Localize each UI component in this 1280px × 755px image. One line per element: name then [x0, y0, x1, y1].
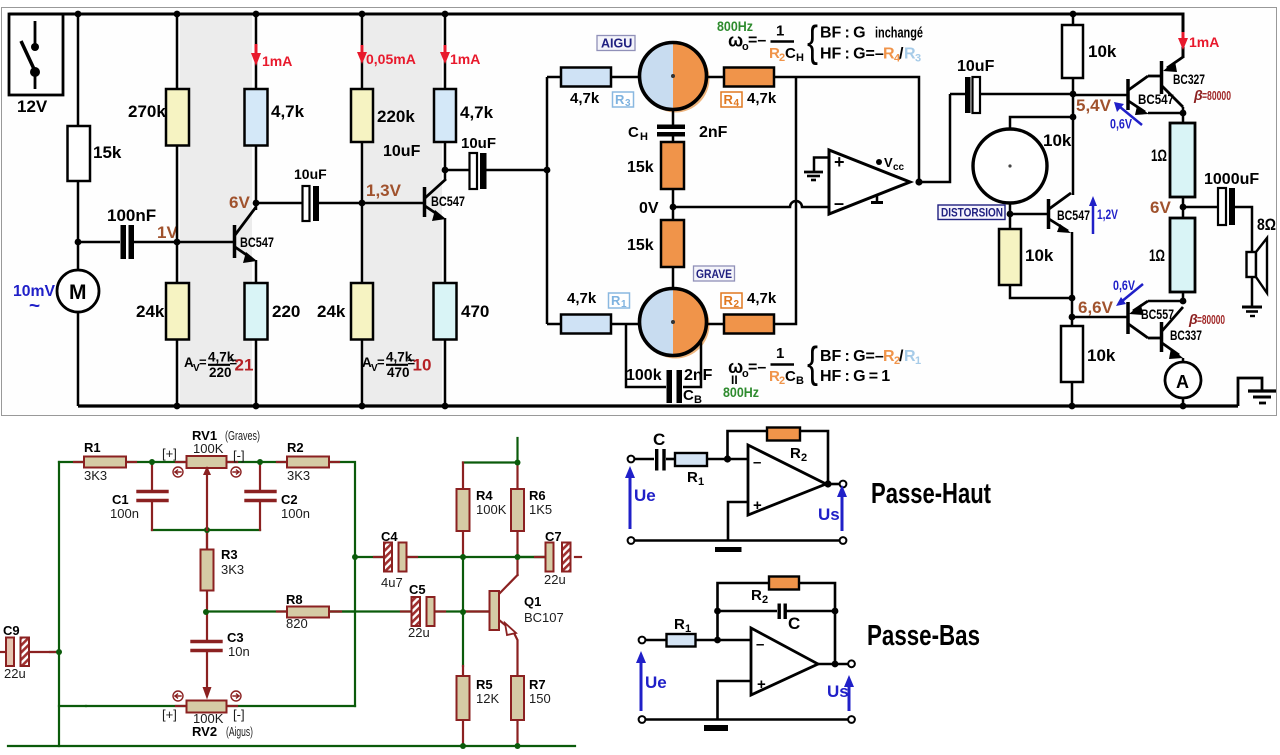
svg-text:R3: R3: [221, 547, 238, 562]
svg-text:BF : G=–: BF : G=–: [820, 348, 884, 365]
svg-text:21: 21: [235, 356, 254, 375]
svg-text:BC327: BC327: [1173, 72, 1205, 87]
svg-text:BC547: BC547: [240, 235, 274, 250]
svg-text:10uF: 10uF: [461, 135, 496, 152]
svg-text:100n: 100n: [110, 506, 139, 521]
svg-text:R: R: [615, 92, 625, 107]
svg-text:6,6V: 6,6V: [1078, 298, 1114, 317]
svg-text:270k: 270k: [128, 102, 166, 121]
svg-text:=: =: [377, 355, 385, 370]
svg-text:1: 1: [685, 623, 691, 635]
svg-text:=: =: [199, 355, 207, 370]
svg-text:150: 150: [529, 691, 551, 706]
svg-text:3K3: 3K3: [287, 468, 310, 483]
svg-text:1mA: 1mA: [1189, 34, 1219, 50]
svg-text:+: +: [757, 676, 766, 693]
svg-text:100nF: 100nF: [107, 206, 156, 225]
svg-text:C2: C2: [281, 492, 298, 507]
svg-text:3K3: 3K3: [221, 562, 244, 577]
svg-text:R2: R2: [287, 440, 304, 455]
svg-text:C5: C5: [409, 582, 426, 597]
svg-text:RV2: RV2: [192, 724, 217, 739]
svg-text:5,4V: 5,4V: [1076, 96, 1112, 115]
svg-text:4u7: 4u7: [381, 575, 403, 590]
svg-text:+: +: [753, 497, 762, 514]
svg-text:cc: cc: [893, 162, 905, 173]
svg-text:{: {: [807, 18, 818, 67]
svg-text:1,2V: 1,2V: [1097, 207, 1118, 222]
svg-text:B: B: [796, 375, 804, 387]
svg-text:10n: 10n: [228, 644, 250, 659]
svg-text:12V: 12V: [17, 97, 48, 116]
svg-text:10k: 10k: [1043, 131, 1072, 150]
svg-text:3: 3: [915, 53, 921, 65]
svg-text:–: –: [753, 454, 761, 471]
svg-text:ω: ω: [728, 31, 743, 51]
svg-text:Q1: Q1: [524, 594, 541, 609]
svg-text:~: ~: [29, 296, 40, 317]
svg-text:470: 470: [461, 302, 489, 321]
svg-text:1mA: 1mA: [262, 53, 292, 69]
svg-text:100K: 100K: [193, 711, 224, 726]
svg-text:8Ω: 8Ω: [1257, 215, 1276, 234]
svg-text:C9: C9: [3, 623, 20, 638]
svg-text:A: A: [1176, 372, 1189, 392]
svg-text:1mA: 1mA: [450, 51, 480, 67]
svg-text:15k: 15k: [627, 159, 654, 176]
svg-text:–: –: [756, 636, 764, 653]
svg-text:2nF: 2nF: [684, 367, 713, 384]
svg-text:C: C: [785, 45, 796, 62]
svg-text:10k: 10k: [1087, 346, 1116, 365]
svg-text:4: 4: [734, 98, 740, 109]
svg-text:22u: 22u: [4, 666, 26, 681]
svg-text:C4: C4: [381, 529, 398, 544]
svg-text:220k: 220k: [377, 107, 415, 126]
svg-text:DISTORSION: DISTORSION: [941, 208, 1003, 220]
svg-text:2: 2: [801, 452, 807, 464]
svg-text:R7: R7: [529, 677, 546, 692]
svg-text:100k: 100k: [626, 367, 662, 384]
svg-text:0,6V: 0,6V: [1110, 117, 1132, 132]
svg-text:[-]: [-]: [233, 707, 245, 722]
svg-text:100K: 100K: [476, 502, 507, 517]
svg-text:(Graves): (Graves): [225, 428, 260, 443]
svg-text:470: 470: [387, 365, 410, 380]
svg-text:[+]: [+]: [162, 707, 177, 722]
svg-text:1Ω: 1Ω: [1149, 246, 1165, 265]
svg-text:220: 220: [272, 302, 300, 321]
svg-text:1,3V: 1,3V: [366, 181, 402, 200]
svg-text:BC557: BC557: [1141, 307, 1174, 322]
svg-text:4,7k: 4,7k: [567, 290, 597, 307]
svg-text:4,7k: 4,7k: [460, 103, 494, 122]
svg-text:=–: =–: [748, 359, 766, 376]
svg-text:1: 1: [776, 23, 784, 40]
svg-text:0,6V: 0,6V: [1113, 278, 1135, 293]
svg-text:1: 1: [698, 476, 704, 488]
svg-text:10uF: 10uF: [957, 58, 995, 75]
svg-text:BF : G: BF : G: [820, 25, 866, 42]
svg-text:1: 1: [776, 345, 784, 362]
svg-text:10uF: 10uF: [294, 166, 327, 182]
svg-text:+: +: [834, 152, 845, 172]
svg-text:1000uF: 1000uF: [1204, 171, 1259, 188]
svg-text:R: R: [790, 445, 801, 462]
svg-text:=80000: =80000: [1197, 313, 1225, 327]
svg-text:B: B: [694, 394, 702, 406]
svg-text:1: 1: [915, 355, 921, 367]
svg-text:220: 220: [209, 365, 232, 380]
svg-text:Us: Us: [827, 682, 849, 701]
svg-text:{: {: [807, 339, 818, 388]
svg-text:R: R: [674, 616, 685, 633]
svg-text:inchangé: inchangé: [875, 26, 923, 42]
svg-text:M: M: [69, 281, 87, 304]
svg-text:4,7k: 4,7k: [747, 90, 777, 107]
svg-text:=80000: =80000: [1202, 89, 1231, 103]
svg-text:800Hz: 800Hz: [723, 385, 759, 400]
svg-text:R5: R5: [476, 677, 493, 692]
svg-text:1K5: 1K5: [529, 502, 552, 517]
svg-text:BC107: BC107: [524, 610, 564, 625]
svg-text:C: C: [653, 430, 665, 449]
svg-text:=–: =–: [748, 32, 766, 49]
svg-text:10uF: 10uF: [383, 143, 421, 160]
svg-text:100n: 100n: [281, 506, 310, 521]
svg-text:Us: Us: [818, 505, 840, 524]
svg-text:C: C: [683, 387, 694, 404]
svg-text:R8: R8: [286, 592, 303, 607]
svg-text:C1: C1: [112, 492, 129, 507]
svg-text:22u: 22u: [408, 625, 430, 640]
svg-text:2nF: 2nF: [699, 124, 728, 141]
svg-text:4,7k: 4,7k: [747, 290, 777, 307]
svg-text:0,05mA: 0,05mA: [366, 51, 416, 67]
svg-text:GRAVE: GRAVE: [696, 267, 732, 281]
svg-text:V: V: [884, 155, 893, 170]
svg-text:6V: 6V: [229, 193, 250, 212]
svg-text:BC547: BC547: [1057, 208, 1090, 223]
svg-text:R6: R6: [529, 488, 546, 503]
svg-text:–: –: [834, 193, 844, 213]
svg-text:AIGU: AIGU: [601, 37, 632, 51]
svg-text:(Aigus): (Aigus): [226, 724, 253, 739]
svg-text:C: C: [788, 614, 800, 633]
svg-text:0V: 0V: [639, 200, 659, 217]
svg-text:H: H: [796, 52, 804, 64]
svg-text:10: 10: [413, 356, 432, 375]
svg-text:15k: 15k: [627, 237, 654, 254]
svg-text:C3: C3: [227, 630, 244, 645]
svg-text:R: R: [724, 293, 734, 308]
svg-text:2: 2: [762, 594, 768, 606]
svg-text:100K: 100K: [193, 441, 224, 456]
svg-text:10k: 10k: [1025, 246, 1054, 265]
svg-text:Ue: Ue: [634, 486, 656, 505]
svg-text:R: R: [751, 587, 762, 604]
svg-text:24k: 24k: [136, 302, 165, 321]
svg-text:BC547: BC547: [431, 194, 465, 209]
svg-text:C7: C7: [545, 529, 562, 544]
svg-text:C: C: [628, 124, 639, 141]
svg-text:22u: 22u: [544, 572, 566, 587]
svg-text:4,7k: 4,7k: [271, 102, 305, 121]
svg-text:HF : G = 1: HF : G = 1: [820, 368, 890, 385]
svg-text:3: 3: [625, 98, 631, 109]
svg-text:R: R: [687, 469, 698, 486]
svg-text:R4: R4: [476, 488, 493, 503]
svg-text:Passe-Haut: Passe-Haut: [871, 478, 991, 510]
svg-text:10k: 10k: [1088, 42, 1117, 61]
svg-text:15k: 15k: [93, 143, 122, 162]
svg-text:Passe-Bas: Passe-Bas: [867, 620, 980, 652]
svg-text:BC337: BC337: [1170, 328, 1202, 343]
svg-text:Ue: Ue: [645, 673, 667, 692]
svg-text:[-]: [-]: [233, 448, 245, 463]
svg-text:R: R: [611, 293, 621, 308]
svg-text:2: 2: [734, 299, 740, 310]
svg-text:C: C: [785, 368, 796, 385]
svg-text:HF : G=–: HF : G=–: [820, 46, 884, 63]
svg-text:[+]: [+]: [162, 446, 177, 461]
svg-text:12K: 12K: [476, 691, 499, 706]
svg-text:R: R: [724, 92, 734, 107]
svg-text:4,7k: 4,7k: [570, 90, 600, 107]
svg-text:820: 820: [286, 616, 308, 631]
svg-text:3K3: 3K3: [84, 468, 107, 483]
svg-text:1: 1: [621, 299, 627, 310]
svg-text:H: H: [640, 131, 648, 143]
svg-text:1Ω: 1Ω: [1151, 146, 1167, 165]
svg-text:6V: 6V: [1150, 198, 1171, 217]
svg-text:R1: R1: [84, 440, 101, 455]
svg-text:24k: 24k: [317, 302, 346, 321]
